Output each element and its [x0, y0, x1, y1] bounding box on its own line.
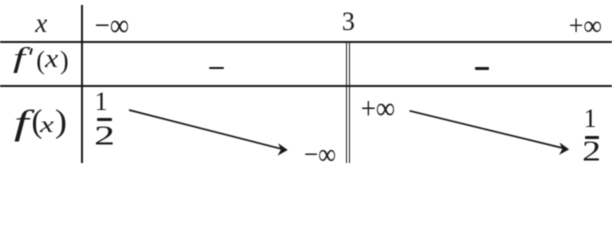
node fraction 1/2 denominator right: [582, 138, 601, 166]
node x=3: double vertical bar line 2: [349, 41, 350, 163]
wire: horizontal line under f'(x) row: [0, 85, 612, 87]
wire: arrowhead left cell: [278, 143, 288, 155]
node row label f'(x): [0, 0, 1, 1]
node fraction 1/2 denominator left: [94, 122, 115, 149]
node fraction 1/2 numerator left: [95, 89, 108, 115]
node row label f(x): [0, 0, 1, 1]
node minus sign left cell f'(x): [209, 67, 224, 70]
node minus sign right cell f'(x): [475, 67, 489, 70]
node -infinity value bottom left cell: [304, 140, 336, 170]
node +infinity header: [569, 12, 602, 41]
wire: arrowhead right cell: [559, 143, 569, 155]
node header variable x: [35, 10, 47, 37]
wire: horizontal line under x row: [0, 41, 612, 43]
node fraction 1/2 numerator right: [584, 106, 597, 132]
wire: decreasing arrow shaft left cell f(x): [129, 110, 282, 149]
node fraction 1/2 bar right: [585, 136, 599, 139]
node x=3: double vertical bar line 1: [346, 41, 347, 163]
node fraction 1/2 bar left: [97, 118, 112, 121]
node -infinity header: [95, 10, 129, 41]
node +infinity value top right cell: [361, 93, 395, 124]
node 3 header: [342, 9, 355, 35]
wire: vertical separator line after header column: [81, 5, 83, 163]
wire: decreasing arrow shaft right cell f(x): [410, 111, 563, 148]
